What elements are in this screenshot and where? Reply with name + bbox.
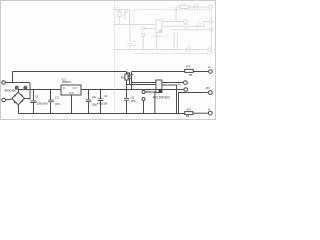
faint LED D2b [123, 10, 128, 21]
svg-text:470µ/16V: 470µ/16V [97, 101, 108, 105]
svg-text:2+: 2+ [208, 65, 211, 69]
LED D2 [127, 73, 134, 85]
svg-text:470: 470 [181, 2, 186, 6]
programming pin K3a [142, 91, 145, 94]
svg-text:3+: 3+ [208, 107, 211, 111]
+5V output terminal [208, 91, 212, 95]
wire [5, 98, 12, 101]
ground rail (left part) [19, 113, 115, 115]
wire PIC pin upper [132, 82, 156, 84]
svg-text:470: 470 [186, 65, 191, 69]
terminal top [209, 70, 213, 74]
svg-text:C3: C3 [55, 95, 59, 99]
svg-text:+5V: +5V [205, 86, 210, 90]
wire vertical to ground [176, 90, 178, 114]
svg-text:+5V: +5V [203, 26, 208, 29]
svg-text:GND: GND [69, 93, 74, 95]
PIC right pin to rail [162, 85, 177, 90]
capacitor C4 [86, 89, 98, 115]
svg-text:B40C800: B40C800 [5, 89, 17, 93]
ground rail right [114, 113, 185, 115]
svg-text:R3: R3 [189, 73, 193, 77]
programming pin K3b [142, 98, 145, 101]
regulator IC1 7805 [61, 77, 81, 114]
dashed divider [114, 2, 116, 112]
raw V+ rail (left part) [13, 71, 115, 73]
faint wire to PIC [114, 24, 156, 26]
faint +5V wire [171, 29, 209, 31]
node at branch [12, 82, 14, 84]
svg-text:A+: A+ [178, 83, 182, 87]
faint programming pins [142, 27, 145, 30]
faint wire pin2 to connector [162, 25, 184, 27]
capacitor C6 [124, 85, 137, 115]
faint duplicated channel above [114, 2, 213, 52]
resistor R3 [185, 65, 209, 77]
bridge rectifier B1 [12, 92, 25, 105]
svg-text:C1: C1 [35, 95, 39, 99]
dashed option box [134, 10, 212, 54]
PIC right pin to terminal [162, 82, 184, 84]
svg-text:IN: IN [63, 88, 66, 90]
svg-text:PIC10F322: PIC10F322 [151, 34, 168, 38]
faint capacitor C6b [127, 25, 137, 51]
svg-text:A+: A+ [178, 22, 182, 26]
svg-text:R6: R6 [121, 75, 125, 79]
faint microcontroller IC3 [151, 20, 168, 50]
wire branch to raw rail [12, 72, 14, 83]
faint LED to terminal [188, 17, 213, 28]
faint LED to bottom terminal [186, 45, 212, 52]
+5V / DC rail left [19, 89, 62, 91]
wire PIC pin mid [127, 84, 156, 86]
svg-text:LED: LED [206, 17, 211, 20]
wire to +5V terminal [179, 92, 209, 94]
dashed PCB boundary [115, 2, 212, 112]
svg-text:C2: C2 [104, 94, 108, 98]
plus node of bridge [15, 86, 18, 89]
raw rail segments [114, 71, 127, 73]
capacitor C2 [95, 89, 109, 115]
svg-text:C6: C6 [132, 39, 136, 43]
resistor R6 [126, 72, 128, 75]
wire vertical to ground [178, 93, 180, 114]
svg-text:7805TV: 7805TV [62, 80, 72, 84]
faint rail [114, 49, 186, 51]
wire [5, 82, 30, 84]
svg-text:100n: 100n [132, 44, 138, 47]
svg-text:100n: 100n [55, 103, 61, 106]
faint top resistor and terminal [176, 2, 212, 22]
microcontroller IC2 PIC10F322 [153, 80, 170, 114]
svg-text:C6: C6 [131, 95, 135, 99]
+5V rail right [114, 89, 184, 91]
capacitor C1 [29, 89, 49, 115]
wire bridge- to ground rail [18, 105, 20, 114]
svg-text:OUT: OUT [73, 88, 78, 90]
faint wire pin to terminal [162, 21, 184, 23]
terminal J1 (input top) [2, 81, 6, 85]
svg-text:1000µ/50V: 1000µ/50V [37, 102, 49, 105]
svg-text:R2: R2 [186, 114, 190, 118]
svg-text:100n: 100n [131, 100, 137, 103]
terminal at +5V rail end [184, 88, 188, 92]
terminal A [184, 81, 188, 85]
svg-text:470: 470 [187, 108, 192, 112]
wire bridge+ to rail [18, 90, 20, 93]
faint verticals to rail [173, 33, 175, 50]
capacitor C3 [48, 89, 61, 115]
page background [0, 0, 216, 120]
resistor R2 [185, 108, 209, 119]
terminal bottom [208, 111, 212, 115]
vertical link between rails [131, 72, 133, 90]
wire down to bridge right corner [25, 83, 31, 99]
terminal J2 (input bottom) [2, 98, 6, 102]
faint wire [129, 10, 131, 25]
plus polarity marker [24, 86, 27, 89]
